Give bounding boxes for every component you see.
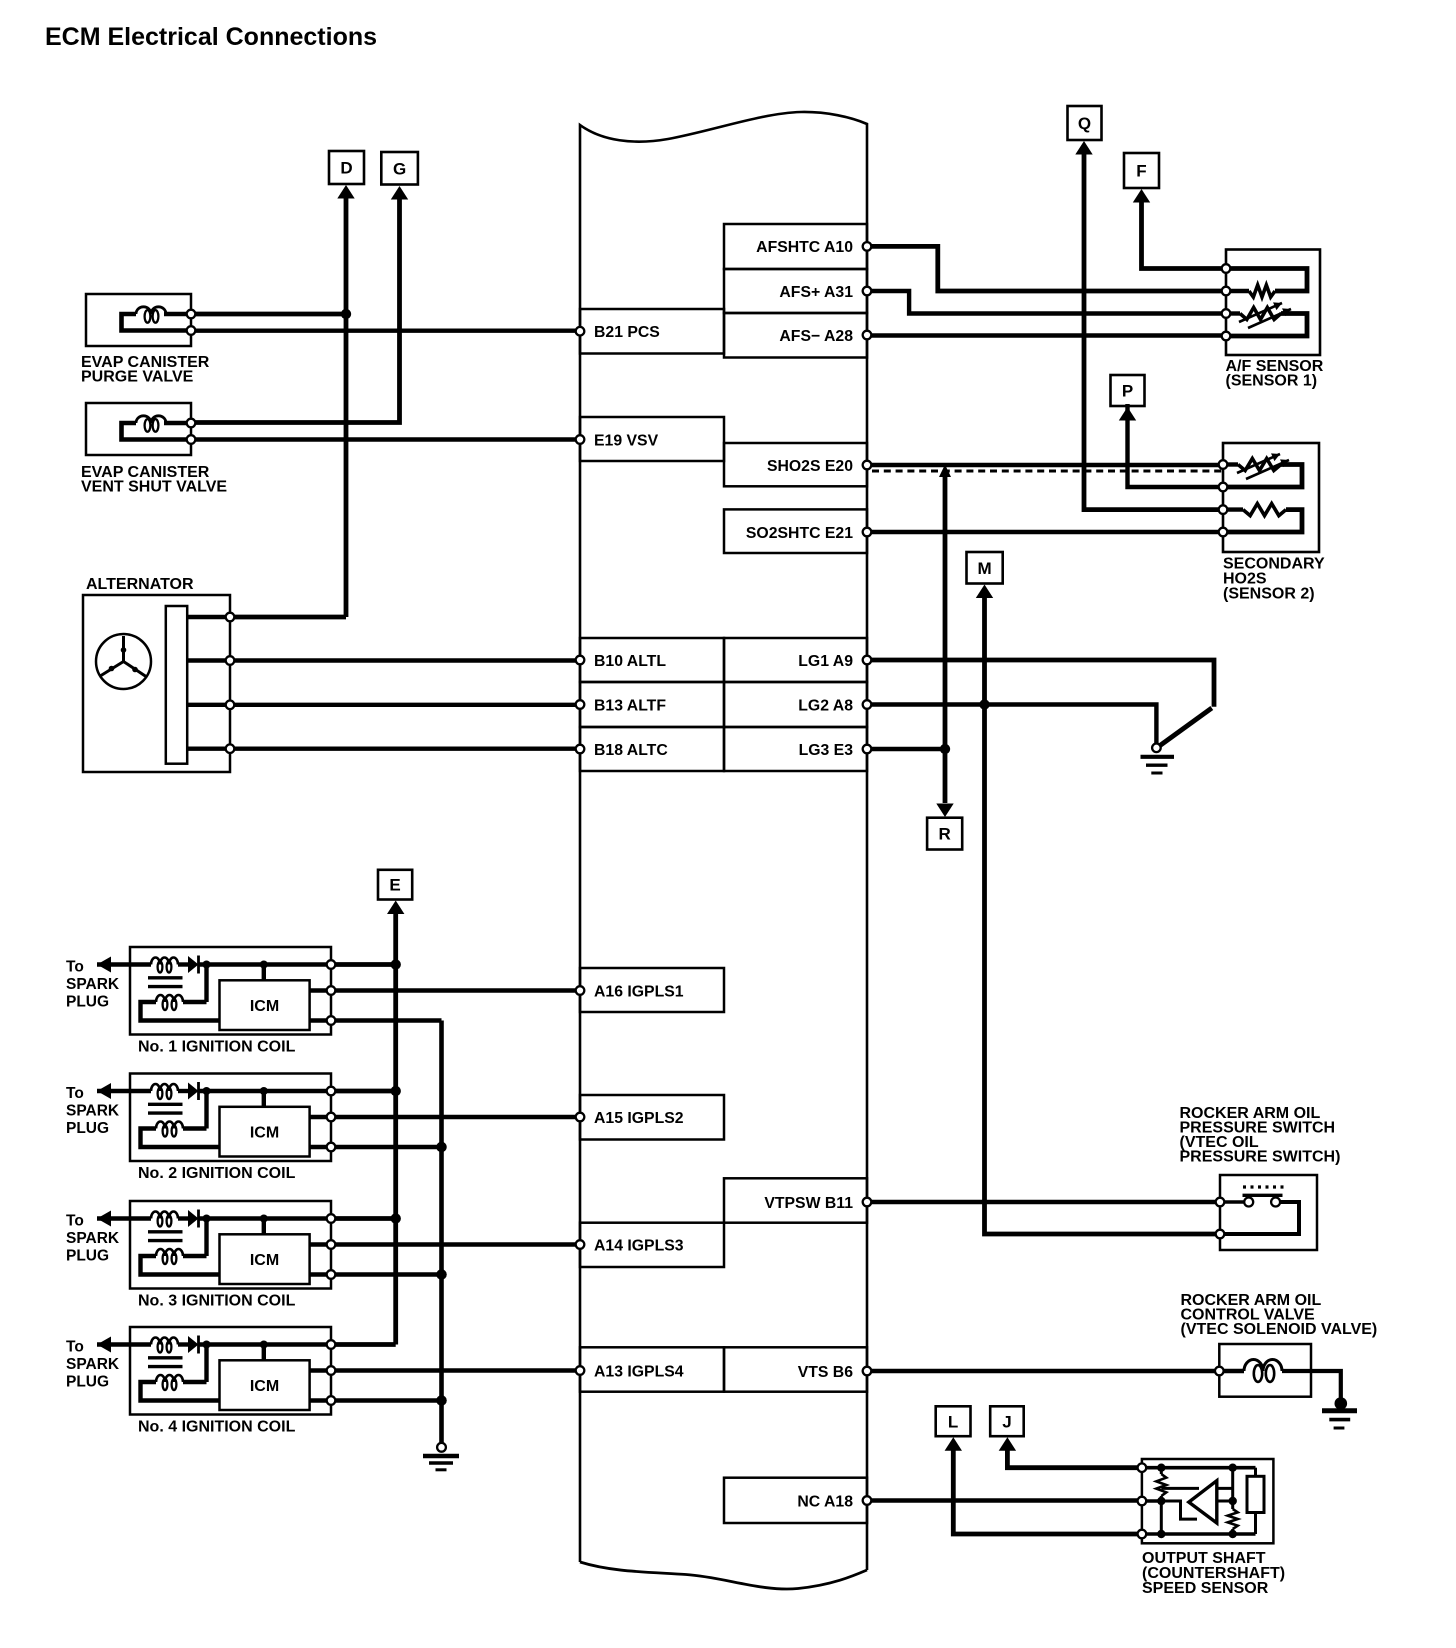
svg-text:G: G (393, 159, 406, 178)
svg-text:ECM Electrical Connections: ECM Electrical Connections (45, 23, 377, 51)
svg-text:To: To (66, 959, 84, 976)
svg-text:AFS− A28: AFS− A28 (779, 328, 853, 345)
svg-text:To: To (66, 1213, 84, 1230)
svg-text:A13 IGPLS4: A13 IGPLS4 (594, 1363, 684, 1380)
svg-text:L: L (948, 1412, 958, 1431)
svg-text:R: R (939, 825, 951, 844)
svg-text:PLUG: PLUG (66, 994, 109, 1011)
svg-text:(SENSOR 1): (SENSOR 1) (1226, 373, 1318, 390)
svg-text:VENT SHUT VALVE: VENT SHUT VALVE (81, 479, 227, 496)
svg-text:PURGE VALVE: PURGE VALVE (81, 369, 194, 386)
svg-text:F: F (1136, 162, 1146, 181)
svg-text:B18 ALTC: B18 ALTC (594, 742, 668, 759)
svg-text:SPARK: SPARK (66, 1230, 120, 1247)
svg-text:P: P (1122, 382, 1133, 401)
svg-text:To: To (66, 1085, 84, 1102)
svg-text:(VTEC SOLENOID VALVE): (VTEC SOLENOID VALVE) (1181, 1321, 1378, 1338)
svg-text:VTPSW B11: VTPSW B11 (764, 1195, 853, 1212)
svg-text:A14 IGPLS3: A14 IGPLS3 (594, 1237, 684, 1254)
svg-text:PRESSURE SWITCH): PRESSURE SWITCH) (1180, 1149, 1341, 1166)
svg-text:ICM: ICM (250, 1378, 279, 1395)
svg-text:ALTERNATOR: ALTERNATOR (86, 576, 194, 593)
svg-text:SPARK: SPARK (66, 976, 120, 993)
svg-text:ICM: ICM (250, 1125, 279, 1142)
svg-text:PLUG: PLUG (66, 1248, 109, 1265)
svg-text:PLUG: PLUG (66, 1374, 109, 1391)
svg-text:AFSHTC A10: AFSHTC A10 (756, 239, 853, 256)
svg-text:E19 VSV: E19 VSV (594, 432, 659, 449)
svg-text:M: M (978, 559, 992, 578)
svg-text:PLUG: PLUG (66, 1120, 109, 1137)
svg-text:B13 ALTF: B13 ALTF (594, 697, 666, 714)
svg-text:SPEED SENSOR: SPEED SENSOR (1142, 1580, 1269, 1597)
svg-text:SO2SHTC E21: SO2SHTC E21 (746, 525, 853, 542)
svg-text:No. 1 IGNITION COIL: No. 1 IGNITION COIL (138, 1039, 296, 1056)
svg-text:A16 IGPLS1: A16 IGPLS1 (594, 983, 684, 1000)
svg-text:VTS B6: VTS B6 (798, 1364, 854, 1381)
svg-text:A15 IGPLS2: A15 IGPLS2 (594, 1110, 684, 1127)
svg-text:B10 ALTL: B10 ALTL (594, 653, 666, 670)
svg-text:No. 2 IGNITION COIL: No. 2 IGNITION COIL (138, 1165, 296, 1182)
svg-text:(SENSOR 2): (SENSOR 2) (1223, 586, 1315, 603)
svg-text:Q: Q (1078, 114, 1091, 133)
svg-text:No. 4 IGNITION COIL: No. 4 IGNITION COIL (138, 1419, 296, 1436)
svg-text:LG2 A8: LG2 A8 (798, 697, 853, 714)
svg-text:LG3 E3: LG3 E3 (799, 742, 854, 759)
svg-text:NC A18: NC A18 (797, 1493, 853, 1510)
svg-text:B21 PCS: B21 PCS (594, 324, 660, 341)
svg-text:SPARK: SPARK (66, 1356, 120, 1373)
svg-text:ICM: ICM (250, 1252, 279, 1269)
svg-text:D: D (340, 159, 352, 178)
svg-text:LG1 A9: LG1 A9 (798, 653, 853, 670)
svg-text:ICM: ICM (250, 998, 279, 1015)
svg-text:SPARK: SPARK (66, 1103, 120, 1120)
svg-text:E: E (389, 876, 400, 895)
svg-text:AFS+ A31: AFS+ A31 (779, 284, 853, 301)
svg-text:J: J (1002, 1412, 1011, 1431)
svg-text:SHO2S E20: SHO2S E20 (767, 458, 853, 475)
svg-text:To: To (66, 1339, 84, 1356)
svg-text:No. 3 IGNITION COIL: No. 3 IGNITION COIL (138, 1293, 296, 1310)
